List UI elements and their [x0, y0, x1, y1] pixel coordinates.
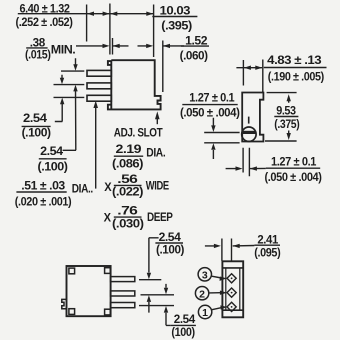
svg-text:1: 1: [202, 307, 208, 319]
svg-text:6.40 ± 1.32: 6.40 ± 1.32: [20, 2, 70, 16]
svg-text:(.050 ± .004): (.050 ± .004): [265, 170, 322, 184]
svg-text:10.03: 10.03: [160, 3, 191, 17]
svg-text:(.190 ± .005): (.190 ± .005): [268, 69, 324, 83]
4.83 extension line right: [262, 60, 264, 93]
svg-text:.76: .76: [117, 204, 138, 218]
top view body (bottom left): [67, 266, 111, 316]
svg-text:X: X: [104, 210, 112, 224]
svg-text:2.54: 2.54: [40, 144, 63, 158]
leader from 2 to pin: [209, 292, 220, 294]
lead pitch extension line 2: [54, 84, 85, 86]
fraction bar 1.27 left: [182, 104, 237, 106]
9.53 dimension extension top: [267, 92, 297, 94]
fraction bar 2.41: [254, 244, 280, 246]
svg-text:2.19: 2.19: [116, 142, 142, 156]
fraction bar .76: [114, 216, 142, 218]
screw slot circle: [242, 127, 256, 141]
svg-text:WIDE: WIDE: [146, 179, 170, 192]
fraction bar 1.27 bottom: [266, 167, 320, 169]
fraction bar .51: [16, 191, 66, 193]
svg-text:(.030): (.030): [112, 217, 144, 231]
end view body (top right): [242, 93, 263, 142]
svg-text:(.060): (.060): [180, 49, 208, 63]
fraction bar 2.54 #1: [22, 125, 51, 127]
fraction bar 2.54 #4: [170, 324, 196, 326]
svg-text:DEEP: DEEP: [147, 211, 173, 224]
svg-text:(.095): (.095): [254, 245, 280, 259]
svg-text:3: 3: [202, 269, 208, 281]
svg-text:DIA.: DIA.: [146, 146, 165, 159]
1.27 bottom dimension arrows: [226, 167, 266, 169]
corner square bottom-left: [69, 309, 75, 315]
svg-text:4.83 ± .13: 4.83 ± .13: [267, 53, 322, 67]
9.53 dimension extension bottom: [265, 140, 297, 142]
svg-text:(.100): (.100): [22, 125, 51, 139]
lead pitch extension line 3: [54, 96, 85, 98]
svg-text:MIN.: MIN.: [51, 44, 76, 57]
side adjuster bump: [62, 299, 67, 308]
fraction bar 1.52: [181, 45, 209, 47]
trimmer body U1 side view: [108, 60, 161, 109]
svg-text:2: 2: [199, 288, 205, 300]
lead 2 (pin 2, side view): [87, 83, 111, 89]
fraction bar 9.53: [274, 116, 298, 118]
extension line v2b (body left edge): [112, 38, 114, 55]
dimension row 2: .38 MIN and 1.52 arrows: [76, 45, 184, 47]
2.54 dim column B arrows: [55, 75, 63, 122]
lead pitch extension line 1: [61, 70, 84, 72]
leader from 3 to pin: [212, 276, 222, 278]
lead diameter leader arrow (.51 DIA): [95, 107, 97, 189]
1.27 left dimension arrows: [212, 118, 214, 159]
front view body (bottom right): [222, 261, 243, 317]
pin diamond 3 (top): [227, 274, 236, 283]
2.54 dim column C: [149, 238, 159, 313]
ADJ. SLOT leader arrow: [156, 118, 158, 124]
corner square top-right: [105, 268, 111, 274]
9.53 arrows: [288, 101, 290, 133]
svg-text:1.27 ± 0.1: 1.27 ± 0.1: [189, 91, 234, 105]
extension line v2a (body step edge): [109, 4, 111, 55]
svg-text:(.100): (.100): [38, 159, 68, 173]
2.41 dimension extension lines: [222, 239, 232, 261]
circled pin number 2: [195, 287, 208, 300]
extension line v3b (adj tab edge): [162, 41, 164, 93]
svg-text:(.252 ± .052): (.252 ± .052): [16, 15, 73, 29]
circled pin number 1: [198, 305, 211, 318]
pin diamond 2 (middle): [227, 288, 236, 297]
fraction bar 4.83: [264, 67, 327, 69]
svg-text:(.050 ± .004): (.050 ± .004): [180, 106, 240, 120]
screw slot bar: [242, 131, 257, 134]
2.41 dimension arrows: [205, 245, 255, 247]
corner square top-left: [69, 268, 75, 274]
svg-text:(.022): (.022): [112, 185, 143, 199]
2.54 dim column A arrows: [63, 58, 76, 150]
svg-text:(.375): (.375): [274, 117, 299, 131]
fraction bar .56: [114, 184, 142, 186]
lead pitch extension lines (bottom middle): [139, 280, 174, 306]
svg-text:2.54: 2.54: [174, 312, 196, 326]
fraction bar 2.19: [114, 155, 143, 157]
1.27 left dimension extension lines: [204, 133, 239, 143]
extension line v1 (lead tips): [86, 5, 88, 42]
svg-text:ADJ. SLOT: ADJ. SLOT: [114, 126, 163, 140]
dimension row 1: 6.40 and 10.03 dimension line: [18, 13, 154, 15]
svg-text:2.54: 2.54: [23, 111, 47, 125]
lead 3 (pin 3, side view): [87, 95, 111, 101]
fraction bar 2.54 #3: [155, 242, 183, 244]
corner square bottom-right: [105, 309, 111, 315]
svg-text:(.395): (.395): [161, 18, 192, 32]
4.83 extension line left: [242, 60, 244, 86]
lead 1 (pin 1, side view): [87, 70, 111, 76]
fraction bar .38: [26, 47, 47, 49]
svg-text:1.52: 1.52: [185, 33, 208, 47]
lead 2 (top view): [111, 291, 135, 296]
svg-text:(.015): (.015): [25, 48, 51, 62]
fraction bar 10.03: [152, 16, 197, 18]
svg-text:2.41: 2.41: [257, 232, 278, 246]
svg-text:(.100): (.100): [156, 243, 184, 257]
lead 3 (top view): [111, 303, 135, 308]
1.27 bottom dimension extension lines: [243, 148, 249, 177]
circled pin number 3: [198, 268, 211, 281]
svg-text:(.020 ± .001): (.020 ± .001): [15, 194, 72, 208]
screw centerline tick: [248, 117, 250, 124]
svg-text:(100): (100): [171, 325, 195, 339]
svg-text:9.53: 9.53: [276, 103, 296, 117]
extension line v3 (body right edge): [153, 5, 155, 58]
fraction bar 2.54 #2: [39, 158, 67, 160]
lead 1 (top view): [111, 277, 135, 282]
svg-text:1.27 ± 0.1: 1.27 ± 0.1: [271, 154, 316, 168]
4.83 dimension: [236, 67, 262, 69]
leader from 1 to pin: [212, 308, 221, 310]
2.54 dim column D: [166, 284, 170, 326]
svg-text:(.086): (.086): [112, 156, 143, 170]
pin diamond 1 (bottom): [227, 302, 236, 311]
svg-text:.51 ± .03: .51 ± .03: [21, 179, 65, 193]
svg-text:DIA..: DIA..: [72, 183, 93, 196]
